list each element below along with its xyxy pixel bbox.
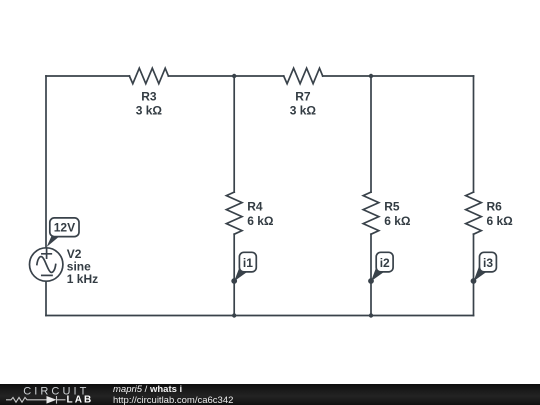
junction node dot: top rail / R4 branch [232, 74, 236, 78]
credit line: url [113, 395, 233, 405]
wire: R4 branch lower [233, 234, 235, 315]
junction node dot: top rail / R5 branch [369, 74, 373, 78]
svg-text:12V: 12V [54, 221, 75, 235]
current probe label i3 [471, 252, 497, 284]
svg-text:LAB: LAB [67, 395, 94, 405]
resistor R5 [363, 192, 379, 234]
current probe label i1 [231, 252, 256, 284]
svg-text:6 kΩ: 6 kΩ [384, 214, 411, 228]
svg-text:R6: R6 [487, 200, 503, 214]
resistor R6 [466, 192, 482, 234]
svg-text:i3: i3 [483, 256, 493, 270]
svg-text:6 kΩ: 6 kΩ [247, 214, 274, 228]
svg-text:i2: i2 [380, 256, 390, 270]
svg-text:6 kΩ: 6 kΩ [487, 214, 514, 228]
resistor R4 [226, 192, 242, 234]
CircuitLab logo wordmark [0, 384, 110, 405]
logo resistor-diode glyph [6, 396, 66, 404]
wire: top rail right segment [323, 75, 474, 77]
svg-text:R7: R7 [295, 89, 311, 103]
wire: top rail left segment [46, 75, 129, 77]
wire: R5 branch lower [370, 234, 372, 315]
svg-text:R4: R4 [247, 200, 263, 214]
current probe label i2 [368, 252, 393, 284]
svg-text:3 kΩ: 3 kΩ [290, 103, 317, 117]
wire: R5 branch upper [370, 76, 372, 192]
svg-text:3 kΩ: 3 kΩ [136, 103, 163, 117]
voltage source V2 (sine) [30, 248, 63, 281]
callout label: 12V on V2 [47, 218, 79, 247]
wire: R4 branch upper [233, 76, 235, 192]
wire: right rail upper (R6 top lead) [473, 76, 475, 192]
svg-text:R5: R5 [384, 200, 400, 214]
credit line: author / title [113, 384, 182, 395]
wire: bottom rail [46, 315, 474, 317]
wire: right rail lower (R6 bottom lead) [473, 234, 475, 315]
resistor R3 [129, 68, 168, 84]
junction node dot: bottom rail / R4 branch [232, 313, 236, 317]
svg-text:1 kHz: 1 kHz [67, 272, 98, 286]
resistor R7 [284, 68, 323, 84]
svg-text:R3: R3 [141, 89, 157, 103]
wire: left rail upper (source top lead) [45, 76, 47, 248]
wire: left rail lower (source bottom lead) [45, 281, 47, 315]
svg-text:i1: i1 [243, 256, 253, 270]
junction node dot: bottom rail / R5 branch [369, 313, 373, 317]
wire: top rail middle segment [168, 75, 283, 77]
